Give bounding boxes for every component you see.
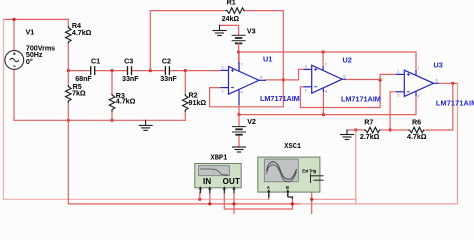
capacitor C1 xyxy=(91,66,95,75)
node OUT minus xyxy=(232,202,235,205)
svg-text:R7: R7 xyxy=(364,118,373,127)
wire left pink vertical xyxy=(3,19,5,199)
node V3 rail xyxy=(237,50,240,53)
svg-text:6: 6 xyxy=(436,79,438,83)
wire R4 leads xyxy=(67,19,69,26)
svg-text:R1: R1 xyxy=(227,0,236,6)
instrument XBP1 pins xyxy=(199,186,236,189)
svg-text:4: 4 xyxy=(325,89,327,93)
svg-text:C2: C2 xyxy=(162,57,171,66)
instrument XSC1 trig pins xyxy=(311,174,324,184)
wire R1 left vertical xyxy=(149,11,151,71)
svg-text:3: 3 xyxy=(222,66,224,70)
pin numbers U2 xyxy=(305,63,346,94)
svg-text:OUT: OUT xyxy=(223,177,241,186)
node C1 left xyxy=(67,69,70,72)
wire XBP1 IN plus pin xyxy=(199,192,201,199)
ground GND1 stem xyxy=(219,25,221,30)
node R3 bottom xyxy=(110,119,113,122)
svg-text:3: 3 xyxy=(397,70,399,74)
instrument XSC1 box xyxy=(258,157,320,192)
node IN minus xyxy=(208,202,211,205)
wire U2 top pin xyxy=(322,52,324,66)
wire XBP1 OUT plus pin to output line xyxy=(224,192,292,209)
svg-text:A: A xyxy=(267,185,270,190)
wire R2 leads xyxy=(184,71,186,94)
svg-text:4.7kΩ: 4.7kΩ xyxy=(407,132,427,141)
wire U1 feedback loop xyxy=(210,88,284,107)
wire V1 bottom lead xyxy=(13,69,15,120)
node R7 left tap xyxy=(354,128,357,131)
capacitor C2 xyxy=(165,66,169,75)
wire V1 top lead xyxy=(13,19,15,50)
wire negative supply rail xyxy=(239,96,416,115)
svg-text:91kΩ: 91kΩ xyxy=(189,98,207,107)
wire U2 output xyxy=(346,79,380,81)
svg-text:3: 3 xyxy=(305,65,307,69)
svg-text:2: 2 xyxy=(222,90,224,94)
wire signal line segment right of scope xyxy=(312,198,356,200)
svg-text:4.7kΩ: 4.7kΩ xyxy=(72,28,92,37)
node V2 rail xyxy=(237,113,240,116)
svg-text:7: 7 xyxy=(417,67,419,71)
resistor R3 xyxy=(109,94,115,113)
wire XBP1 OUT minus pin xyxy=(233,192,235,214)
ground GND1 xyxy=(213,31,226,36)
svg-text:C1: C1 xyxy=(91,57,100,66)
wire R1 top horizontal xyxy=(150,10,225,12)
ground GND4 xyxy=(346,130,348,134)
node IN plus xyxy=(198,198,201,201)
wire U3 output xyxy=(439,82,458,84)
node OUT plus B junction xyxy=(291,202,294,205)
node R1 tap xyxy=(149,69,152,72)
svg-text:LM7171AIM: LM7171AIM xyxy=(436,99,474,108)
wire R7 R6 row xyxy=(347,129,364,131)
svg-text:XBP1: XBP1 xyxy=(211,155,228,163)
wire top horizontal from pink feed to R4 xyxy=(4,18,69,20)
resistor R2 xyxy=(183,94,189,112)
wire V2 battery stems xyxy=(238,115,240,127)
svg-text:U1: U1 xyxy=(263,55,272,64)
svg-text:68nF: 68nF xyxy=(75,74,92,83)
wire U1 output to U2 input jog xyxy=(266,69,304,80)
svg-text:2: 2 xyxy=(305,89,307,93)
wire U2 feedback loop xyxy=(300,74,395,107)
svg-text:4: 4 xyxy=(241,91,243,95)
svg-text:U3: U3 xyxy=(434,61,443,70)
svg-text:Ext Trig: Ext Trig xyxy=(302,169,316,174)
svg-text:6: 6 xyxy=(343,74,345,78)
svg-text:U2: U2 xyxy=(343,55,352,64)
resistor R4 xyxy=(66,26,72,44)
node U2 output xyxy=(379,78,382,81)
node R3 top xyxy=(110,69,113,72)
node U2 bottom pin xyxy=(322,113,325,116)
resistor R5 xyxy=(66,85,72,103)
wire U1 bottom pin to V2 xyxy=(238,105,240,115)
svg-text:2.7kΩ: 2.7kΩ xyxy=(360,132,380,141)
wire positive supply rail xyxy=(239,52,416,70)
wire U2 bottom pin xyxy=(322,92,324,115)
battery V2 xyxy=(233,127,246,135)
svg-text:6: 6 xyxy=(260,76,262,80)
op-amp U1 xyxy=(220,52,266,105)
svg-text:4.7kΩ: 4.7kΩ xyxy=(116,97,136,106)
wire XSC1 A pin lead xyxy=(268,197,270,199)
wire tap down to ground line xyxy=(355,130,357,204)
svg-text:33nF: 33nF xyxy=(160,74,177,83)
node U1 output xyxy=(282,78,285,81)
instrument XSC1 A B pins xyxy=(267,189,289,192)
wire R5 leads and ground drop xyxy=(67,71,69,85)
wire R1 right vertical to U1 output node xyxy=(282,11,284,107)
node trig on signal line xyxy=(310,198,313,201)
wire XBP1 IN minus pin xyxy=(209,192,211,204)
resistor R6 horizontal xyxy=(408,127,424,133)
wire U3 output to R6 xyxy=(427,83,453,130)
svg-text:33nF: 33nF xyxy=(122,74,139,83)
svg-text:24kΩ: 24kΩ xyxy=(222,14,240,23)
node junction V1 top xyxy=(12,18,15,21)
op-amp U2 xyxy=(304,65,347,93)
wire ground rail left xyxy=(14,119,185,121)
pin numbers U1 xyxy=(222,63,263,95)
node U3 output xyxy=(451,82,454,85)
svg-text:XSC1: XSC1 xyxy=(284,143,301,151)
svg-text:V3: V3 xyxy=(247,26,256,35)
svg-text:4: 4 xyxy=(417,94,419,98)
svg-text:LM7171AIM: LM7171AIM xyxy=(260,94,300,103)
source V1 xyxy=(5,51,24,70)
wire R3 leads xyxy=(111,71,113,94)
svg-text:R6: R6 xyxy=(412,118,421,127)
capacitor C3 xyxy=(128,66,132,75)
wire U3 feedback to R7 R6 junction xyxy=(390,92,396,130)
node R5 bottom xyxy=(67,119,70,122)
svg-text:7: 7 xyxy=(241,63,243,67)
svg-text:V1: V1 xyxy=(26,28,35,37)
svg-text:B: B xyxy=(286,185,289,190)
instrument XBP1 box xyxy=(195,164,241,188)
pin numbers U3 xyxy=(397,67,437,98)
svg-text:LM7171AIM: LM7171AIM xyxy=(341,95,381,104)
wire signal row caps xyxy=(68,70,90,72)
wire U3 output down to bottom line xyxy=(457,83,459,204)
wire scope trig drop xyxy=(311,183,313,214)
battery V3 xyxy=(232,35,245,43)
resistor R1 horizontal xyxy=(225,8,245,14)
svg-text:0°: 0° xyxy=(26,57,33,66)
svg-text:C3: C3 xyxy=(124,57,133,66)
svg-text:2: 2 xyxy=(397,94,399,98)
op-amp U3 xyxy=(396,70,439,96)
node U2 top pin xyxy=(322,50,325,53)
node C2 right R2 top xyxy=(184,69,187,72)
ground GND2 xyxy=(233,147,246,152)
wire bottom signal line to XBP1 IN+ and XSC1 A xyxy=(4,198,269,200)
svg-text:V2: V2 xyxy=(247,117,256,126)
resistor R7 horizontal xyxy=(364,127,380,133)
wire V3 bottom to rail and U1 top pin xyxy=(238,43,240,62)
svg-text:IN: IN xyxy=(203,177,211,186)
svg-text:7: 7 xyxy=(325,63,327,67)
wire V3 ground link xyxy=(220,25,239,35)
svg-text:7kΩ: 7kΩ xyxy=(72,89,86,98)
node R7 R6 junction xyxy=(389,128,392,131)
ground GND3 on left rail xyxy=(145,120,147,125)
